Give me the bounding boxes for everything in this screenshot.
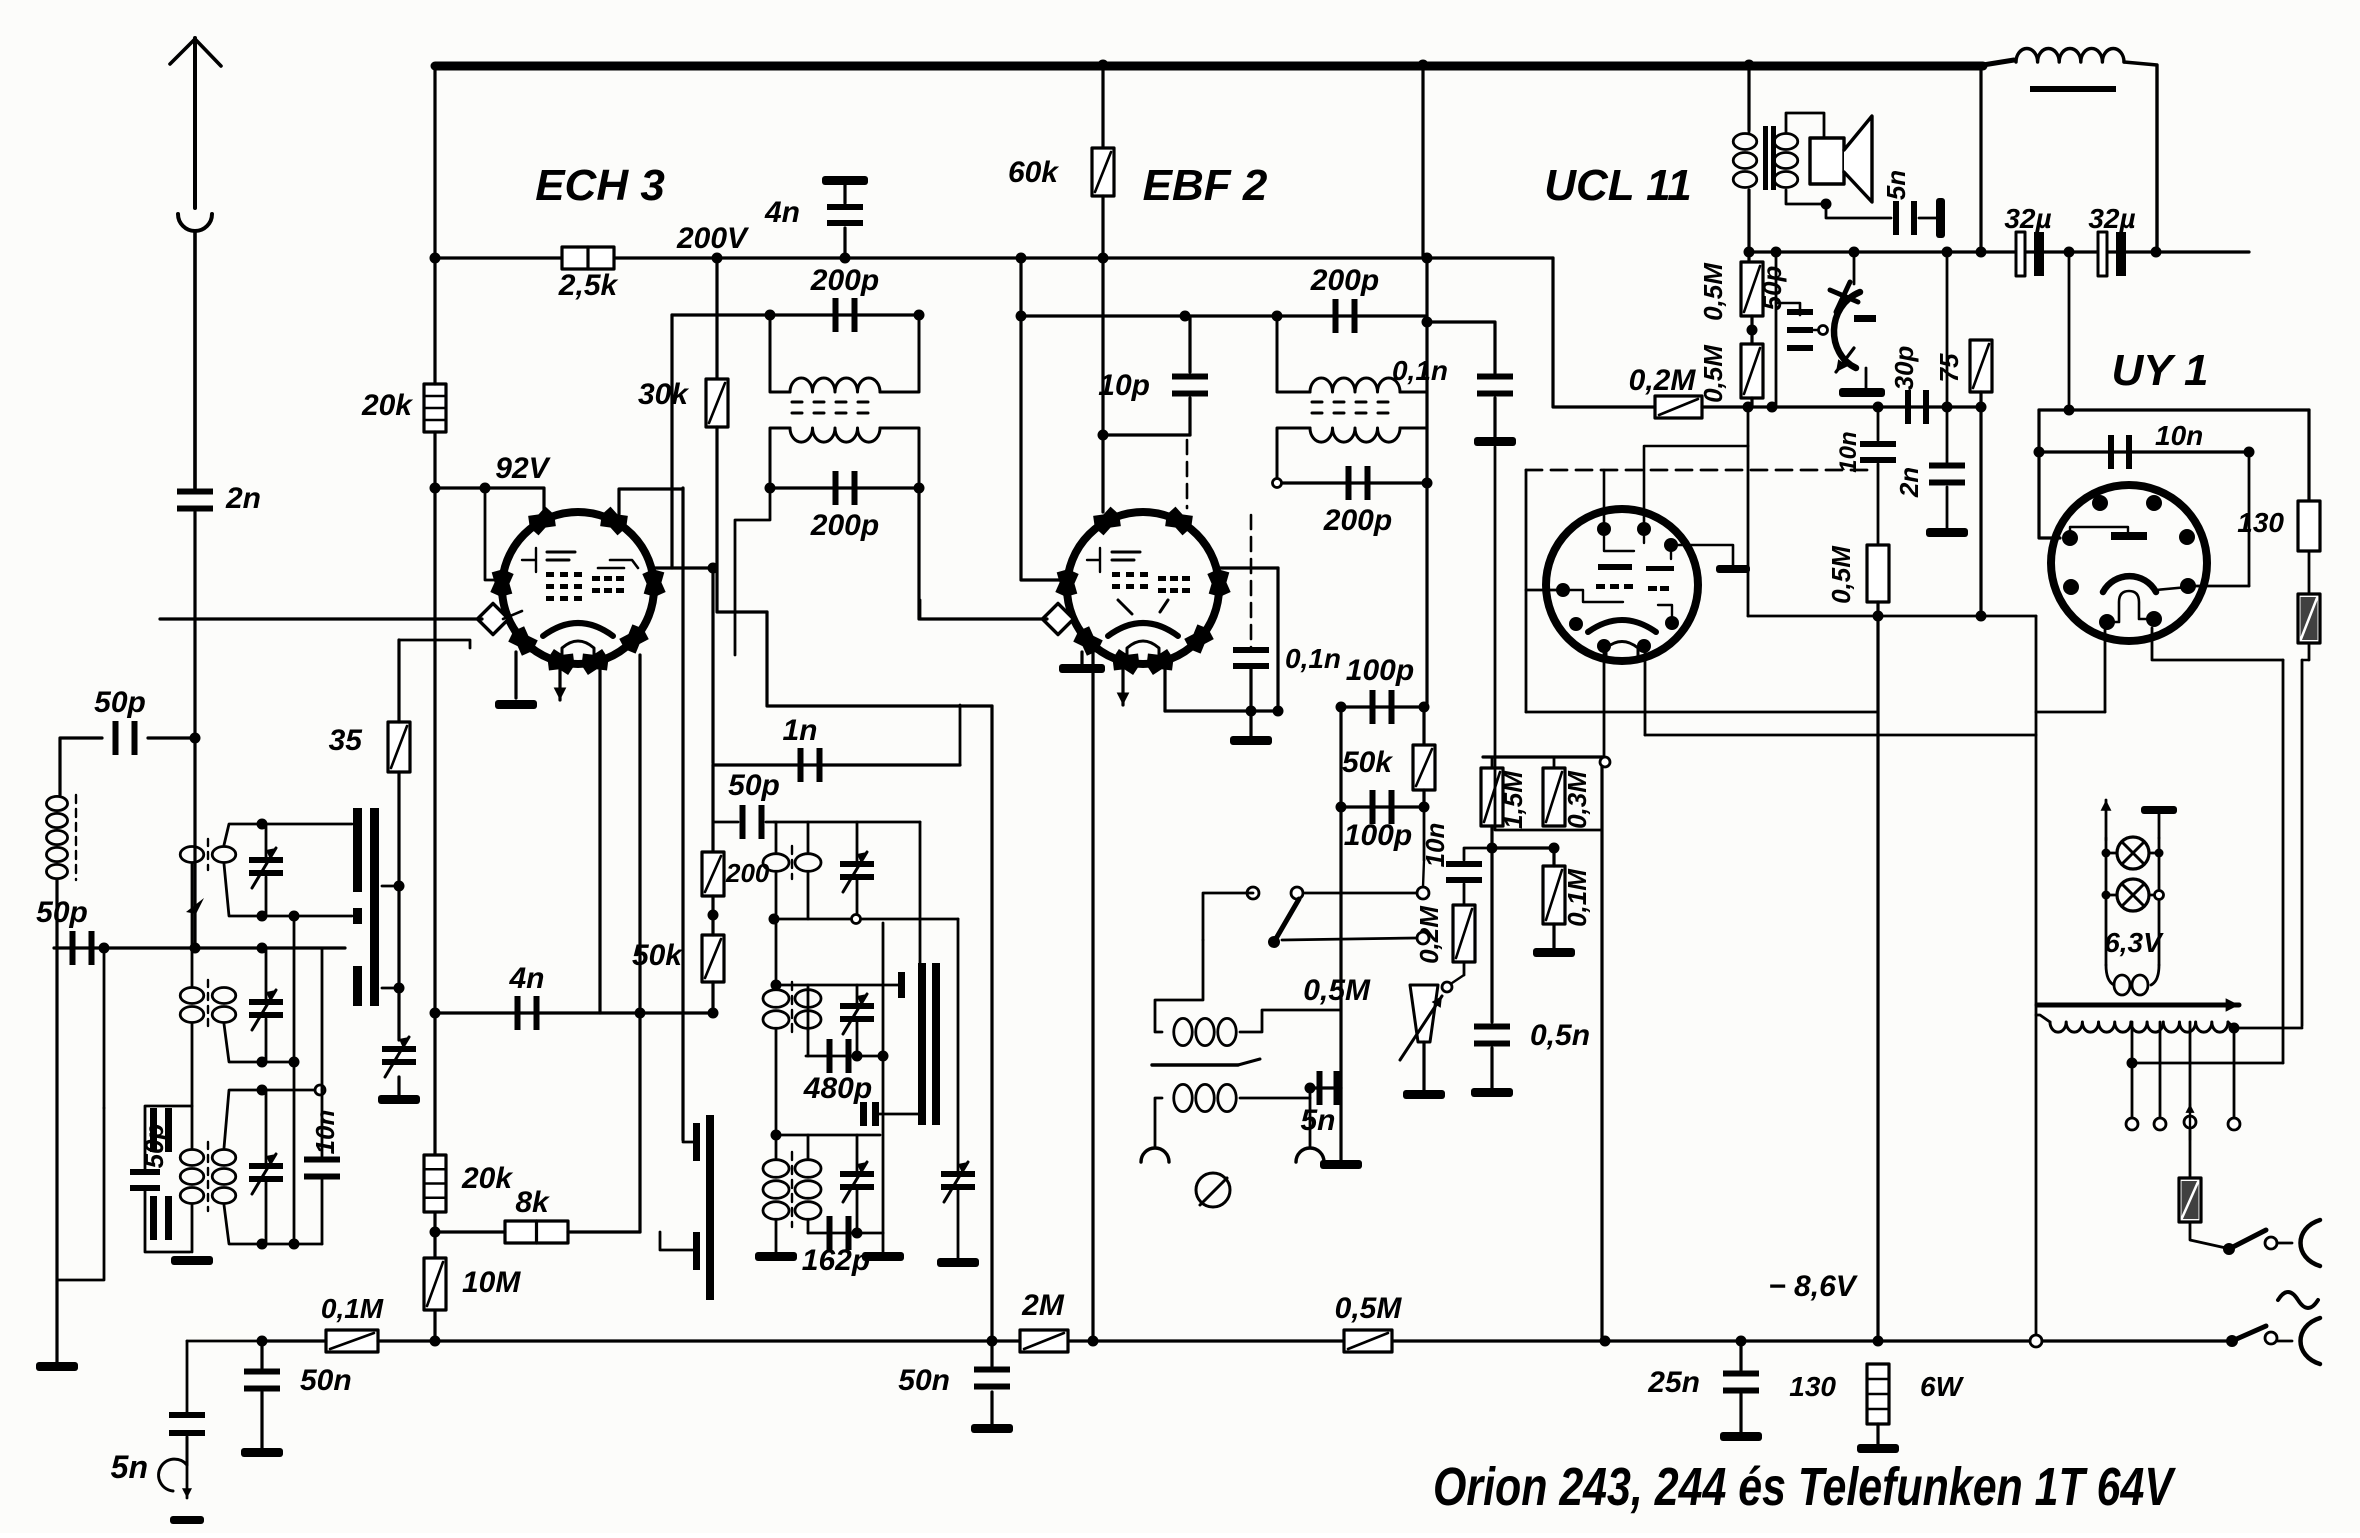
choke L1 filter: [2016, 48, 2124, 62]
output transformer: [1733, 126, 1798, 190]
detector coil: [1174, 1018, 1236, 1045]
resistor 50k osc: [702, 935, 724, 982]
ground 130 6W: [1857, 1444, 1899, 1453]
wire ECH3 cathode to ground: [514, 652, 517, 698]
svg-text:4n: 4n: [508, 962, 544, 995]
wire 10n uy line: [2039, 450, 2249, 453]
wire 60k into EBF2: [1101, 435, 1104, 512]
svg-text:480p: 480p: [803, 1072, 872, 1105]
wire 32u to cathode box: [2068, 252, 2071, 410]
wire osc tank2 top: [774, 984, 898, 987]
wire UCL11 cathode: [1603, 653, 1606, 757]
trimmer capacitor RF3: [249, 1154, 283, 1194]
ground 50n mid: [971, 1424, 1013, 1433]
wire 50p2 line: [54, 946, 345, 949]
lamp arrow: [2101, 800, 2112, 840]
svg-text:130: 130: [2237, 507, 2284, 538]
svg-text:0,1M: 0,1M: [1562, 868, 1592, 927]
pickup hook: [159, 1437, 187, 1491]
wire 60k to rail: [1101, 196, 1104, 258]
wire antenna down: [193, 512, 196, 948]
band switch contacts mid: [706, 1115, 714, 1300]
wire 30k to osc anode: [717, 427, 767, 612]
RF coil pair: [180, 988, 204, 1023]
wire tank2 bottom: [224, 1024, 294, 1062]
wire osc grid down: [681, 488, 684, 1140]
capacitor 4n decoupling: [822, 176, 868, 185]
wire 2M junction up: [1091, 650, 1094, 1341]
trimmer capacitor osc1: [840, 852, 874, 892]
resistor 0,5M (upper): [1747, 252, 1750, 262]
wire avc dashdot: [1250, 515, 1253, 648]
capacitor 100p det2: [1370, 790, 1395, 824]
wire EBF2 diode pin: [1163, 655, 1166, 711]
svg-text:75: 75: [1934, 353, 1964, 382]
resistor 35: [388, 722, 410, 772]
filament winding 6,3V: [2106, 965, 2114, 985]
band switch contacts right: [918, 963, 926, 1125]
svg-text:5n: 5n: [1881, 170, 1911, 200]
wire lamp rail left: [2105, 838, 2108, 965]
svg-text:32µ: 32µ: [2004, 203, 2051, 234]
wire rf chain: [191, 864, 194, 986]
wire osc tank2 bottom: [806, 1055, 883, 1058]
capacitor 480p: [827, 1039, 852, 1073]
svg-text:20k: 20k: [461, 1162, 513, 1195]
svg-text:Orion 243, 244 és Telefunken 1: Orion 243, 244 és Telefunken 1T 64V: [1433, 1457, 2176, 1517]
resistor 20k agc: [424, 1155, 446, 1212]
node 25n: [1736, 1336, 1747, 1347]
wire ant coil to ground: [55, 880, 58, 1362]
svg-text:25n: 25n: [1647, 1366, 1700, 1399]
wire 92V to ECH3: [435, 488, 544, 516]
wire IF1 to EBF2 grid: [917, 488, 920, 619]
wire UY1 filament 2: [2152, 628, 2283, 660]
wire UCL11 g2: [1671, 545, 1733, 565]
wire filament drop: [2282, 660, 2285, 1063]
wire 200V to 30k: [715, 258, 718, 379]
svg-text:50k: 50k: [632, 939, 683, 972]
svg-text:100p: 100p: [1344, 819, 1412, 852]
wire UCL11 top pin2: [1644, 446, 1748, 529]
wire primary left: [2035, 616, 2038, 1341]
svg-text:50n: 50n: [898, 1364, 950, 1397]
svg-text:32µ: 32µ: [2088, 203, 2135, 234]
wire 1n line: [713, 763, 960, 766]
antenna: [193, 38, 197, 208]
wire IF1 prim right: [880, 315, 919, 392]
wire 35 to padder: [397, 772, 400, 1040]
wire to 5n: [186, 1341, 189, 1412]
svg-text:92V: 92V: [495, 452, 551, 485]
wire switch to 100p node: [1305, 892, 1416, 895]
wire osc tank1 bottom: [774, 918, 958, 921]
resistor 20k screen: [424, 384, 446, 432]
svg-text:30p: 30p: [1889, 345, 1919, 390]
wire fuse to switch: [2190, 1222, 2226, 1248]
wire rail to 0,2M: [1553, 258, 1655, 407]
capacitor 10n uy: [2108, 435, 2132, 469]
wire output/32u line: [1749, 250, 2249, 253]
resistor 0,5M (lower): [1741, 344, 1763, 398]
wire osc tank3 bottom: [808, 1232, 883, 1235]
ground antenna: [36, 1362, 78, 1371]
wire IF2 to 0,1n: [1427, 322, 1495, 373]
wire avc to 0,5n: [1490, 848, 1493, 1022]
wire 50p to ant coil: [60, 738, 102, 795]
wire to 60k: [1101, 65, 1104, 148]
wire osc to chassis bus: [990, 706, 993, 1339]
svg-text:1,5M: 1,5M: [1498, 770, 1528, 829]
wire chassis bus left end: [262, 1339, 326, 1342]
wire tank1 top: [224, 824, 352, 845]
resistor 75: [1970, 340, 1992, 392]
resistor 0,1M agc: [326, 1330, 378, 1352]
wire heater to lamps: [2036, 711, 2105, 714]
ground 0,1n IF2: [1474, 437, 1516, 446]
resistor 0,2M ucl: [1655, 396, 1702, 418]
wire 75 down: [1979, 392, 1982, 616]
capacitor 32u first: [2016, 232, 2025, 276]
wire tap 4: [2233, 1028, 2236, 1118]
potentiometer 0,5M volume: [1410, 985, 1438, 1042]
svg-text:0,5M: 0,5M: [1698, 262, 1728, 321]
svg-text:50k: 50k: [1342, 746, 1393, 779]
capacitor 5n speaker: [1893, 201, 1917, 235]
svg-text:10n: 10n: [310, 1110, 340, 1155]
node 200V junction: [712, 253, 723, 264]
wire 0,2M line: [1702, 405, 1981, 408]
wire IF1 sec left: [770, 428, 790, 488]
wire pot to ground: [1422, 1042, 1425, 1090]
wire det to switch: [1423, 807, 1426, 860]
capacitor 50n left: [257, 1336, 268, 1347]
wire tank3 top: [224, 1090, 316, 1148]
capacitor 10n ucl: [1877, 407, 1880, 440]
wire 1n riser: [959, 705, 962, 765]
tube U1 ECH3: [490, 504, 666, 676]
svg-text:50p: 50p: [94, 686, 146, 719]
wire tap 3: [2189, 1022, 2192, 1112]
wire antenna to 2n: [193, 231, 197, 488]
wire osc divider: [711, 765, 714, 852]
wire IF2 bottom: [1277, 481, 1427, 484]
node tap terminal 2: [2154, 1118, 2166, 1130]
svg-text:1n: 1n: [782, 714, 817, 747]
node 60k to 10p: [1098, 430, 1109, 441]
wire EBF2 grid cap: [920, 617, 1047, 620]
svg-text:− 8,6V: − 8,6V: [1768, 1270, 1859, 1303]
svg-text:35: 35: [329, 724, 364, 757]
resistor 0,5M cathode: [1867, 545, 1889, 602]
antenna coil: [46, 796, 67, 878]
capacitor 50p eye: [1787, 309, 1813, 351]
wire bus left drop: [433, 65, 436, 258]
resistor 8k: [505, 1221, 568, 1243]
svg-text:EBF 2: EBF 2: [1143, 161, 1268, 210]
wire UCL11 left frame: [1525, 470, 1528, 712]
resistor 60k: [1092, 148, 1114, 196]
oscillator coil pair: [763, 1160, 789, 1220]
wire heater dashdot: [1526, 469, 1876, 472]
pilot lamp 2: [2117, 879, 2149, 911]
wire 200p line EBF: [1021, 314, 1427, 317]
svg-text:50p: 50p: [36, 896, 88, 929]
wire EBF2 plate drop: [1276, 568, 1279, 711]
wire tap 1: [2131, 1022, 2134, 1063]
fuse: [2189, 1130, 2192, 1178]
ground 5n: [170, 1516, 204, 1524]
EBF2 heater arrow: [1117, 655, 1130, 705]
wire bus to output transformer: [1747, 65, 1750, 130]
svg-text:130: 130: [1789, 1371, 1836, 1402]
wire choke to 32u line: [2124, 62, 2157, 253]
resistor 0,2M det: [1453, 905, 1475, 962]
wire 10n to 1,5M: [1464, 848, 1486, 860]
capacitor 0,5n: [1474, 1024, 1510, 1047]
capacitor 200p IF1 top: [833, 298, 858, 332]
ground rf3: [171, 1256, 213, 1265]
switch mains lower: [2226, 1335, 2238, 1347]
wire IF1 top: [672, 313, 919, 316]
wire 32u to UY1 plate: [2248, 452, 2251, 586]
capacitor 0,1n EBF cathode: [1233, 647, 1269, 669]
svg-text:0,2M: 0,2M: [1629, 364, 1697, 397]
capacitor 10p: [1172, 374, 1208, 397]
svg-text:5n: 5n: [111, 1449, 148, 1485]
svg-text:0,1n: 0,1n: [1392, 355, 1448, 386]
wire IF1 to ECH3 plate: [670, 315, 673, 568]
svg-text:2M: 2M: [1021, 1289, 1065, 1322]
switch gramophone: [1247, 887, 1259, 899]
capacitor 50p antenna: [113, 721, 138, 755]
trimmer capacitor osc3: [840, 1162, 874, 1202]
node tap terminal 4: [2228, 1118, 2240, 1130]
svg-text:20k: 20k: [361, 389, 413, 422]
ferrite adjust arrow: [186, 898, 204, 914]
node pot tap: [1442, 982, 1452, 992]
capacitor 200p IF2 top: [1333, 299, 1358, 333]
wire det mid: [1341, 805, 1424, 808]
wire switch left: [1203, 893, 1253, 940]
wire osc tank1 top: [774, 821, 920, 824]
wire tank1 bottom: [224, 864, 352, 916]
svg-text:200p: 200p: [1323, 504, 1392, 537]
wire coil bot right: [1240, 1088, 1310, 1098]
ground 5n speaker: [1936, 198, 1945, 238]
power transformer core: [2037, 998, 2239, 1012]
svg-text:162p: 162p: [802, 1244, 870, 1277]
wire IF1 sec return: [735, 488, 770, 655]
resistor 130: [2298, 501, 2320, 551]
wire top B+ bus: [435, 62, 1983, 71]
wire 50k down: [711, 982, 714, 1013]
svg-text:200p: 200p: [1310, 264, 1379, 297]
capacitor 2n antenna: [177, 489, 213, 512]
ground osc padder: [937, 1258, 979, 1267]
ground 50n left: [241, 1448, 283, 1457]
capacitor 2n output: [1946, 407, 1949, 462]
wire to EBF2 left: [1021, 316, 1070, 580]
wire UY1 plate stub: [2192, 585, 2249, 588]
wire transformer to 0,5M chain: [1747, 190, 1750, 252]
resistor 0,1M det: [1543, 866, 1565, 924]
svg-text:10p: 10p: [1098, 369, 1150, 402]
node 92V: [430, 483, 441, 494]
wire switch return: [57, 1108, 104, 1280]
capacitor 5n det: [1317, 1071, 1340, 1105]
wire 30p frame: [1946, 252, 1949, 407]
svg-text:2,5k: 2,5k: [558, 269, 619, 302]
wire IF2 sec left: [1277, 428, 1310, 483]
svg-text:0,5M: 0,5M: [1335, 1292, 1403, 1325]
wire tap link: [2132, 1062, 2283, 1065]
trimmer capacitor RF2: [249, 990, 283, 1030]
wire to 5n det: [1310, 1086, 1341, 1089]
resistor 2,5k: [562, 247, 614, 269]
wire to switch: [103, 948, 106, 1108]
svg-text:4n: 4n: [764, 196, 800, 229]
capacitor 162p: [827, 1216, 852, 1250]
wire UY1 filament 1: [2104, 630, 2107, 712]
wire tank bottoms link: [293, 916, 296, 1244]
wire heater run 3: [1748, 615, 2036, 618]
capacitor 50p band3: [130, 1169, 160, 1191]
wire to 50p antenna cap: [148, 736, 195, 739]
ground lamps: [2141, 806, 2177, 814]
node 0,5M mid: [1747, 325, 1758, 336]
svg-text:200V: 200V: [676, 222, 750, 255]
grid cap of ECH3: [477, 603, 508, 634]
wire osc padder top: [957, 919, 960, 1171]
power transformer winding: [2050, 1022, 2228, 1032]
plug pin upper: [2301, 1220, 2321, 1266]
resistor 200: [702, 852, 724, 896]
wire bus drop at EBF2 right: [1421, 65, 1424, 258]
svg-text:10n: 10n: [1835, 431, 1862, 472]
node winding right: [2229, 1023, 2240, 1034]
resistor 0,3M: [1543, 768, 1565, 826]
resistor 0,5M bus: [1344, 1330, 1392, 1352]
wire gang contact 1: [382, 885, 399, 888]
svg-text:0,1M: 0,1M: [321, 1293, 384, 1324]
grid cap of EBF2: [1042, 603, 1073, 634]
svg-text:30k: 30k: [638, 378, 689, 411]
svg-text:50n: 50n: [300, 1364, 352, 1397]
svg-text:0,5M: 0,5M: [1826, 545, 1856, 604]
wire UCL11 top pin: [1603, 470, 1606, 529]
wire eye frame: [1775, 252, 1778, 407]
capacitor 1n: [798, 748, 823, 782]
svg-text:50p: 50p: [728, 769, 780, 802]
wire 20k down to chassis bus: [433, 432, 436, 1339]
wire sec top: [1786, 113, 1824, 138]
choke core: [2030, 86, 2116, 92]
antenna coupling loop: [178, 214, 212, 231]
wire rail to 200p line: [1019, 258, 1022, 316]
ground 2n: [1926, 528, 1968, 537]
capacitor 30p: [1905, 390, 1929, 424]
ground pot: [1403, 1090, 1445, 1099]
svg-text:200p: 200p: [810, 509, 879, 542]
plug pin lower: [2301, 1318, 2321, 1364]
capacitor 10n det: [1446, 861, 1482, 883]
ground 0,1M: [1533, 948, 1575, 957]
capacitor 32u second: [2098, 232, 2107, 276]
resistor ballast dark: [2298, 594, 2320, 643]
RF coil pair: [180, 847, 204, 863]
svg-text:10M: 10M: [462, 1266, 521, 1299]
capacitor 4n osc: [515, 996, 540, 1030]
trimmer capacitor osc2: [840, 994, 874, 1034]
wire 35 top: [397, 640, 400, 722]
wire bus right drop: [1979, 65, 1982, 252]
IF transformer T2: [1310, 378, 1400, 442]
node 8k junction: [430, 1227, 441, 1238]
ECH3 heater arrow: [554, 655, 567, 700]
node tap terminal 1: [2126, 1118, 2138, 1130]
wire ballast down: [2301, 660, 2304, 1026]
wire tank3 bottom: [224, 1205, 322, 1244]
wire osc right rail: [882, 923, 885, 1233]
wire IF2 sec right: [1400, 428, 1427, 483]
capacitor 100p det: [1370, 690, 1395, 724]
wire coil top right: [1240, 1010, 1341, 1032]
capacitor 50n mid: [987, 1336, 998, 1347]
wire ECH3 top pin to osc grid: [619, 489, 683, 514]
wire EBF2 plate rail: [1425, 258, 1428, 707]
wire to 5n speaker: [1826, 204, 1891, 218]
svg-text:UY 1: UY 1: [2111, 346, 2208, 395]
node osc divider: [708, 910, 719, 921]
wire IF2 prim left: [1277, 316, 1310, 392]
ground osc 162p: [862, 1252, 904, 1261]
ground 5n det: [1320, 1160, 1362, 1169]
wire sec bottom: [1786, 190, 1826, 204]
svg-text:0,5M: 0,5M: [1303, 974, 1371, 1007]
ground padder: [378, 1095, 420, 1104]
wire tank2 trim top: [265, 948, 268, 999]
band switch contacts gang: [353, 808, 362, 892]
wire 10n top: [321, 948, 324, 1090]
wire UCL11 grid: [1526, 589, 1563, 592]
ground 25n: [1720, 1432, 1762, 1441]
tube U3 UCL11: [1546, 509, 1698, 661]
wire tap 2: [2159, 1022, 2162, 1118]
svg-text:UCL 11: UCL 11: [1544, 161, 1692, 210]
wire det left rail: [1339, 707, 1342, 1088]
wire osc coil chain: [775, 919, 778, 988]
ground eye: [1839, 388, 1885, 397]
wire 200V rail: [435, 256, 1553, 259]
variable capacitor osc padder: [941, 1162, 975, 1202]
wire heater run 1: [1526, 711, 1878, 714]
node bus-step to choke: [1983, 60, 2014, 65]
wire 4n line: [435, 1011, 713, 1014]
wire osc anode run: [767, 612, 992, 706]
resistor 50k det: [1413, 745, 1435, 790]
IF transformer T1: [790, 378, 880, 442]
wire rail to 20k: [433, 258, 436, 384]
capacitor 200p IF1 bottom: [833, 471, 858, 505]
svg-text:60k: 60k: [1008, 156, 1059, 189]
wire EBF2 plate out: [1220, 566, 1278, 569]
switch mains upper: [2223, 1243, 2235, 1255]
wire switch arm out: [1282, 938, 1416, 940]
wire 0,5M down to bus: [1876, 602, 1879, 1341]
wire to 1n coupling: [711, 568, 714, 763]
wire 92V to ECH3 grid: [485, 488, 502, 580]
